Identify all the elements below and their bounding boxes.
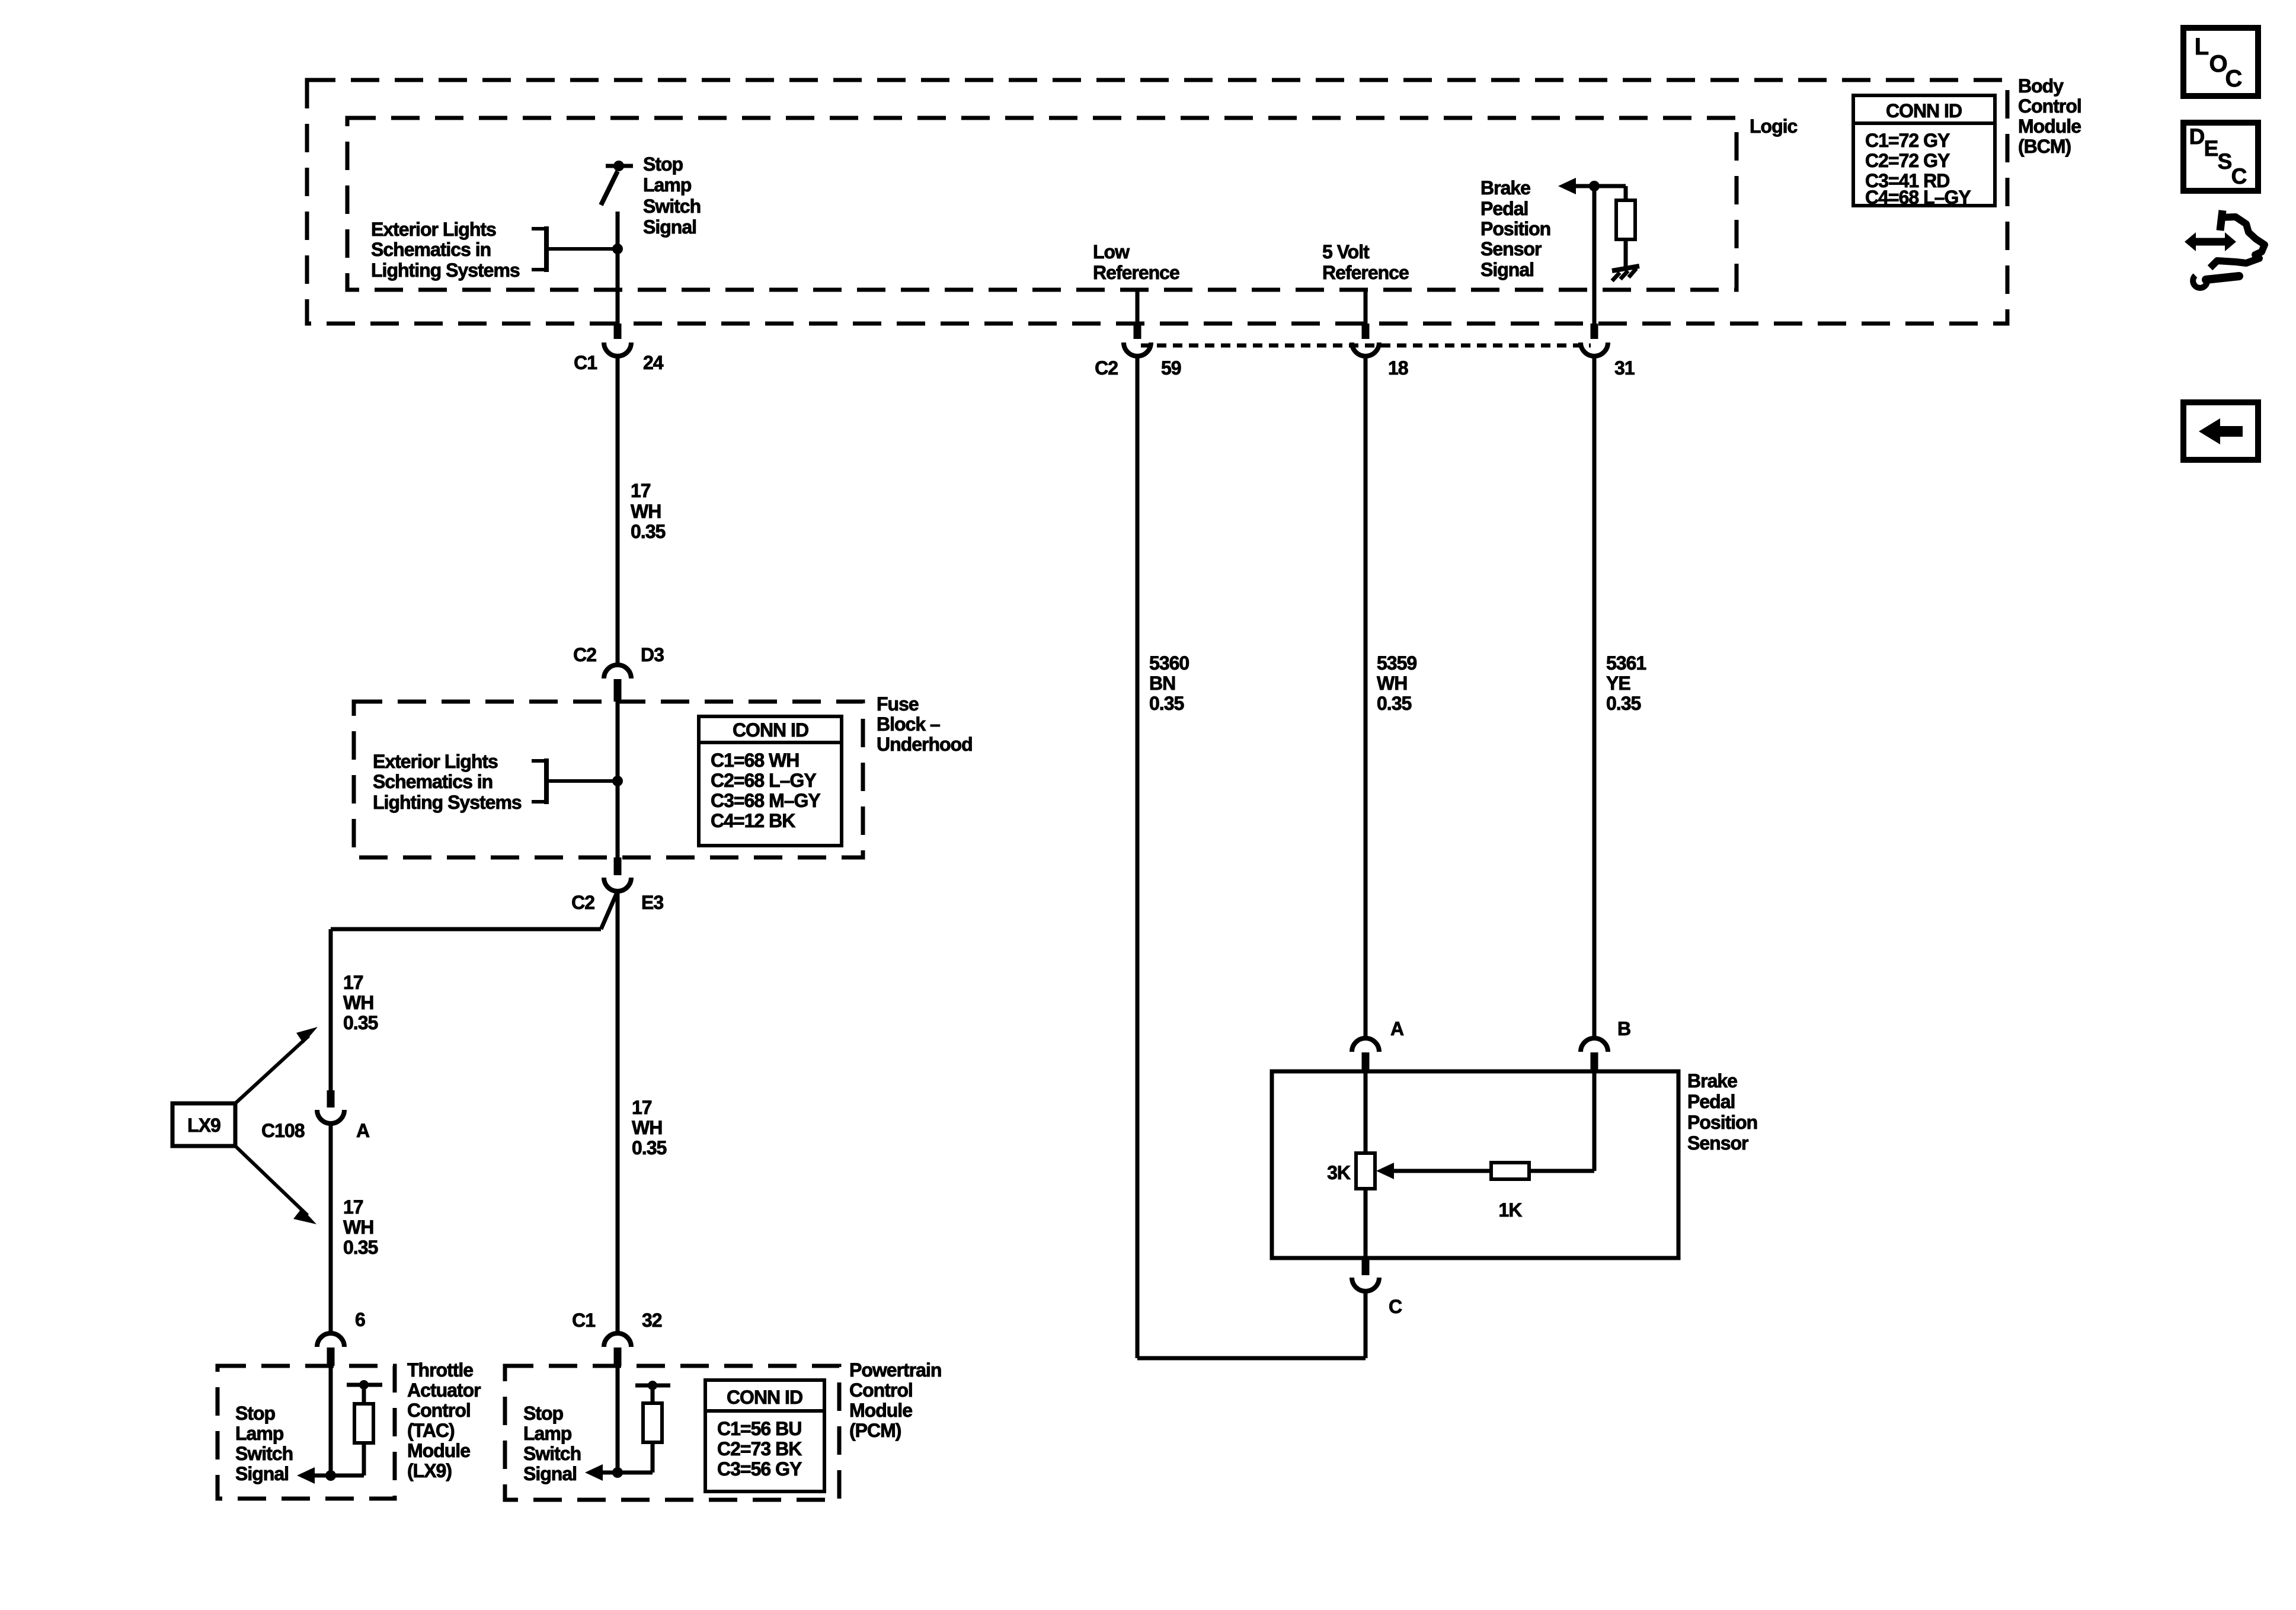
svg-text:(LX9): (LX9) <box>407 1460 452 1481</box>
bracket to exterior lights reference (fuse block) <box>532 758 546 804</box>
svg-text:17: 17 <box>343 972 363 993</box>
svg-text:Module: Module <box>849 1400 912 1421</box>
label Fuse Block - Underhood <box>877 693 973 755</box>
svg-text:Lamp: Lamp <box>643 174 692 196</box>
wire branch diagonal from E3 <box>601 891 618 929</box>
label 17 WH 0.35 <box>631 480 665 542</box>
LX9 box <box>172 1103 235 1146</box>
wire B leg inside sensor <box>1593 1071 1597 1171</box>
wire into PCM module <box>616 1366 620 1473</box>
label Brake Pedal Position Sensor Signal <box>1480 177 1550 280</box>
dotted connector line C2 <box>1141 344 1591 348</box>
svg-text:Reference: Reference <box>1322 262 1409 283</box>
wire 5361 YE <box>1593 356 1597 1038</box>
svg-text:B: B <box>1617 1018 1630 1039</box>
svg-text:Exterior Lights: Exterior Lights <box>373 751 498 772</box>
label Exterior Lights Schematics in Lighting Systems (fuse block) <box>373 751 522 813</box>
svg-text:C2=73 BK: C2=73 BK <box>717 1438 802 1459</box>
connector pin stub 18 <box>1362 324 1370 339</box>
svg-text:0.35: 0.35 <box>1606 693 1641 714</box>
bracket to exterior lights reference (BCM) <box>532 226 546 272</box>
wiper arrow (points left into 3K) <box>1376 1163 1394 1179</box>
connector C2 pin 31 (arc opens up) <box>1581 343 1608 356</box>
svg-text:Reference: Reference <box>1093 262 1179 283</box>
svg-text:Signal: Signal <box>643 216 696 238</box>
svg-text:C2=72 GY: C2=72 GY <box>1865 150 1950 171</box>
resistor 1K <box>1491 1163 1529 1179</box>
svg-text:0.35: 0.35 <box>343 1237 378 1258</box>
wire junction down through BCM edge <box>616 249 620 324</box>
svg-text:Control: Control <box>407 1400 471 1421</box>
wire 5359 WH <box>1364 356 1368 1038</box>
svg-text:Sensor: Sensor <box>1687 1132 1748 1154</box>
svg-text:Sensor: Sensor <box>1480 238 1542 260</box>
label Low Reference <box>1093 241 1179 283</box>
wire E3 to PCM C1-32 <box>616 891 620 1332</box>
svg-text:L: L <box>2195 34 2209 60</box>
connector pin stub C <box>1362 1258 1370 1275</box>
wire through fuse block <box>616 702 620 857</box>
resistor in PCM module <box>635 1381 670 1473</box>
svg-text:6: 6 <box>355 1309 365 1330</box>
svg-text:0.35: 0.35 <box>1377 693 1411 714</box>
svg-text:C3=68 M–GY: C3=68 M–GY <box>711 790 820 811</box>
svg-text:C2=68 L–GY: C2=68 L–GY <box>711 770 816 791</box>
wire 5v reference riser <box>1364 290 1368 324</box>
connector C1 pin 32 (arc opens down) <box>604 1333 631 1347</box>
svg-text:Lighting Systems: Lighting Systems <box>371 260 520 281</box>
svg-text:Module: Module <box>407 1440 470 1461</box>
svg-text:Brake: Brake <box>1480 177 1530 199</box>
connector pin B (arc opens down) <box>1581 1038 1608 1052</box>
Fuse block CONN ID table <box>699 716 842 846</box>
wire 5360 BN <box>1136 356 1140 1358</box>
connector pin stub C1 24 <box>614 324 622 339</box>
label 5360 BN 0.35 <box>1149 652 1189 714</box>
stop lamp switch (open contact) <box>601 161 633 205</box>
svg-text:WH: WH <box>632 1117 662 1138</box>
svg-text:Exterior Lights: Exterior Lights <box>371 219 496 240</box>
svg-text:Stop: Stop <box>235 1403 276 1424</box>
svg-text:Lamp: Lamp <box>523 1423 572 1444</box>
connector pin stub C108 <box>327 1090 335 1108</box>
icon LOC box <box>2183 28 2258 96</box>
connector pin stub E3 <box>614 857 622 875</box>
svg-text:Position: Position <box>1480 218 1550 239</box>
svg-text:CONN ID: CONN ID <box>1886 100 1962 121</box>
wire wiper to 1K <box>1392 1169 1491 1173</box>
svg-text:C4=68 L–GY: C4=68 L–GY <box>1865 187 1971 208</box>
label Stop Lamp Switch Signal (PCM) <box>523 1403 581 1484</box>
svg-text:Switch: Switch <box>235 1443 293 1464</box>
svg-text:C: C <box>1389 1296 1402 1317</box>
svg-text:18: 18 <box>1388 357 1408 379</box>
connector C2 pin 59 (arc opens up) <box>1124 343 1151 356</box>
svg-text:32: 32 <box>642 1310 662 1331</box>
svg-text:Stop: Stop <box>643 153 683 175</box>
arrow PCM signal (points left) <box>585 1464 603 1481</box>
svg-text:C1: C1 <box>574 352 597 373</box>
ground (BCM internal) <box>1612 266 1639 281</box>
label Stop Lamp Switch Signal (BCM) <box>643 153 701 238</box>
wire switch to junction <box>616 212 620 249</box>
connector pin stub A <box>1362 1052 1370 1071</box>
svg-text:Lamp: Lamp <box>235 1423 284 1444</box>
svg-text:Body: Body <box>2018 75 2064 97</box>
connector pin 6 (arc opens down) <box>317 1333 344 1347</box>
svg-text:1K: 1K <box>1499 1199 1523 1221</box>
connector C2 pin D3 (arc opens down) <box>604 665 631 678</box>
wire 1K to B leg <box>1529 1169 1594 1173</box>
node junction at BCM signal <box>1589 181 1600 191</box>
svg-text:Signal: Signal <box>1480 259 1534 280</box>
wire into TAC module <box>329 1366 333 1475</box>
svg-text:0.35: 0.35 <box>631 521 665 542</box>
svg-text:D: D <box>2189 124 2205 149</box>
svg-text:Fuse: Fuse <box>877 693 919 715</box>
resistor in TAC module <box>347 1380 382 1475</box>
svg-text:(TAC): (TAC) <box>407 1420 455 1441</box>
svg-text:Block –: Block – <box>877 713 940 735</box>
svg-text:CONN ID: CONN ID <box>733 719 808 741</box>
svg-text:BN: BN <box>1149 673 1175 694</box>
svg-text:Underhood: Underhood <box>877 734 973 755</box>
label 17 WH 0.35 (below C108) <box>343 1196 378 1258</box>
svg-text:Module: Module <box>2018 116 2081 137</box>
label 5361 YE 0.35 <box>1606 652 1646 714</box>
wire left branch down to C108 <box>329 929 333 1090</box>
wire potentiometer to C <box>1364 1189 1368 1258</box>
arrow TAC signal (points left) <box>297 1467 315 1484</box>
svg-text:C108: C108 <box>261 1120 305 1141</box>
svg-text:Control: Control <box>849 1379 913 1401</box>
wire PCM horizontal to arrow <box>590 1471 653 1475</box>
connector pin stub 6 <box>327 1347 335 1366</box>
svg-text:LX9: LX9 <box>187 1115 220 1136</box>
svg-text:17: 17 <box>343 1196 363 1218</box>
svg-text:Lighting Systems: Lighting Systems <box>373 792 522 813</box>
svg-text:Pedal: Pedal <box>1687 1091 1735 1112</box>
label Throttle Actuator Control (TAC) Module (LX9) <box>407 1359 481 1481</box>
svg-text:(PCM): (PCM) <box>849 1420 901 1441</box>
svg-text:24: 24 <box>643 352 664 373</box>
svg-text:S: S <box>2218 149 2233 174</box>
svg-text:31: 31 <box>1614 357 1635 379</box>
connector pin C (arc opens up) <box>1352 1278 1379 1291</box>
Body Control Module (BCM) dashed box <box>307 80 2007 324</box>
arrow LX9 to upper wire <box>235 1027 318 1103</box>
svg-text:YE: YE <box>1606 673 1630 694</box>
svg-text:59: 59 <box>1161 357 1181 379</box>
svg-text:A: A <box>1390 1018 1404 1039</box>
svg-text:C2: C2 <box>573 644 596 665</box>
Logic dashed box <box>347 118 1737 290</box>
svg-text:C1=72 GY: C1=72 GY <box>1865 130 1950 151</box>
svg-text:WH: WH <box>343 992 373 1013</box>
svg-text:5360: 5360 <box>1149 652 1189 674</box>
connector pin stub B <box>1591 1052 1598 1071</box>
svg-text:Throttle: Throttle <box>407 1359 473 1381</box>
wire bracket to junction (fuse block) <box>546 779 618 783</box>
svg-text:Switch: Switch <box>523 1443 581 1464</box>
svg-text:C1=68 WH: C1=68 WH <box>711 750 799 771</box>
wire 17 WH 0.35 from BCM C1-24 to fuse block <box>616 356 620 664</box>
wire A to potentiometer <box>1364 1071 1368 1153</box>
svg-text:0.35: 0.35 <box>1149 693 1184 714</box>
svg-text:5359: 5359 <box>1377 652 1416 674</box>
svg-text:Signal: Signal <box>523 1463 577 1484</box>
label 17 WH 0.35 (above C108) <box>343 972 378 1033</box>
label Brake Pedal Position Sensor <box>1687 1070 1757 1154</box>
svg-text:C4=12 BK: C4=12 BK <box>711 810 795 831</box>
connector pin A (arc opens down) <box>1352 1038 1379 1052</box>
svg-text:E3: E3 <box>641 892 663 913</box>
connector pin stub 31 <box>1591 324 1598 339</box>
arrow brake pedal position sensor signal (points left) <box>1558 178 1576 194</box>
BCM CONN ID table <box>1853 95 1995 208</box>
svg-text:D3: D3 <box>641 644 664 665</box>
node junction inside fuse block <box>612 776 623 786</box>
connector C108 pin A (arc opens up) <box>317 1110 344 1124</box>
svg-text:5361: 5361 <box>1606 652 1646 674</box>
connector pin stub D3 <box>614 679 622 702</box>
svg-text:Schematics in: Schematics in <box>371 239 491 260</box>
resistor pull-up in BCM <box>1616 186 1635 267</box>
svg-text:C3=56 GY: C3=56 GY <box>717 1458 802 1480</box>
label 5359 WH 0.35 <box>1377 652 1416 714</box>
Brake Pedal Position Sensor box <box>1272 1071 1678 1258</box>
svg-text:WH: WH <box>343 1217 373 1238</box>
Powertrain Control Module dashed box <box>505 1366 839 1500</box>
svg-text:Schematics in: Schematics in <box>373 771 493 792</box>
svg-text:5 Volt: 5 Volt <box>1322 241 1370 263</box>
svg-text:17: 17 <box>632 1097 652 1118</box>
svg-text:Brake: Brake <box>1687 1070 1737 1092</box>
label Stop Lamp Switch Signal (TAC) <box>235 1403 293 1484</box>
Fuse Block - Underhood dashed box <box>354 702 863 857</box>
connector pin stub 32 <box>614 1347 622 1366</box>
svg-text:WH: WH <box>631 501 661 522</box>
wire low reference riser <box>1136 290 1140 324</box>
label 5 Volt Reference <box>1322 241 1409 283</box>
wire branch horizontal to left <box>331 927 601 932</box>
svg-text:C2: C2 <box>1095 357 1118 379</box>
connector C2 pin 18 (arc opens up) <box>1352 343 1379 356</box>
svg-text:CONN ID: CONN ID <box>727 1387 802 1408</box>
svg-text:Low: Low <box>1093 241 1130 263</box>
wire bracket to junction (BCM) <box>546 247 618 251</box>
svg-text:0.35: 0.35 <box>632 1137 666 1158</box>
svg-text:C1: C1 <box>572 1310 595 1331</box>
icon vehicle outline with arrows and wrench <box>2185 210 2265 288</box>
icon DESC box <box>2183 123 2258 191</box>
wire signal 31 inside BCM <box>1593 186 1597 324</box>
wire return C to low reference <box>1137 1356 1366 1361</box>
icon back arrow box <box>2183 402 2258 460</box>
svg-text:Powertrain: Powertrain <box>849 1359 941 1381</box>
svg-text:C: C <box>2225 66 2243 92</box>
node junction on stop lamp signal wire <box>612 244 623 254</box>
svg-text:Logic: Logic <box>1750 116 1798 137</box>
svg-text:C1=56 BU: C1=56 BU <box>717 1418 801 1439</box>
label Body Control Module (BCM) <box>2018 75 2081 157</box>
node junction in TAC <box>325 1470 336 1481</box>
svg-text:Stop: Stop <box>523 1403 564 1424</box>
wire TAC horizontal to arrow <box>302 1474 364 1478</box>
svg-text:Signal: Signal <box>235 1463 289 1484</box>
PCM CONN ID table <box>705 1380 824 1491</box>
potentiometer 3K <box>1356 1153 1375 1189</box>
arrow LX9 to lower wire <box>235 1146 316 1224</box>
label Exterior Lights Schematics in Lighting Systems (BCM) <box>371 219 520 281</box>
svg-text:Switch: Switch <box>643 196 701 217</box>
svg-text:Actuator: Actuator <box>407 1379 481 1401</box>
svg-text:WH: WH <box>1377 673 1407 694</box>
svg-text:Control: Control <box>2018 95 2081 117</box>
connector pin stub 59 <box>1134 324 1141 339</box>
svg-text:(BCM): (BCM) <box>2018 136 2071 157</box>
svg-text:17: 17 <box>631 480 651 501</box>
svg-text:E: E <box>2204 136 2219 161</box>
svg-text:C2: C2 <box>571 892 594 913</box>
label Powertrain Control Module (PCM) <box>849 1359 941 1441</box>
wire arrow to resistor branch <box>1574 184 1626 188</box>
Throttle Actuator Control (TAC) Module dashed box <box>218 1366 395 1499</box>
connector C1 pin 24 (arc opens up) <box>604 343 631 356</box>
svg-text:Pedal: Pedal <box>1480 198 1528 219</box>
svg-text:C: C <box>2231 164 2247 188</box>
svg-text:A: A <box>356 1120 370 1141</box>
svg-text:3K: 3K <box>1327 1162 1351 1183</box>
wire C108 to TAC module <box>329 1124 333 1332</box>
svg-text:0.35: 0.35 <box>343 1012 378 1033</box>
svg-text:Position: Position <box>1687 1112 1757 1133</box>
node junction in PCM <box>612 1467 623 1478</box>
connector C2 pin E3 (arc opens up) <box>604 878 631 891</box>
label 17 WH 0.35 (PCM wire) <box>632 1097 666 1158</box>
